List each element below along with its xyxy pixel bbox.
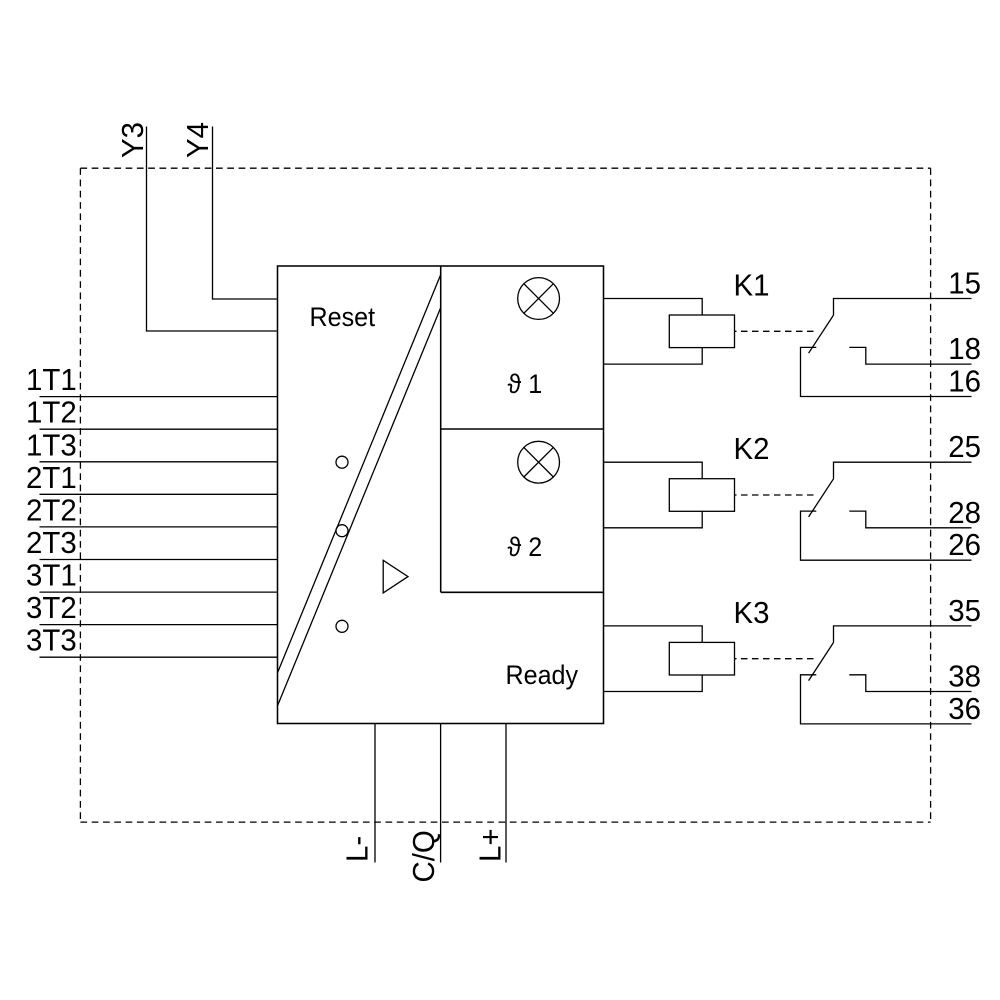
svg-text:C/Q: C/Q xyxy=(407,830,441,882)
mechanical link K2 coil to contact (dashed) xyxy=(735,494,818,496)
svg-text:35: 35 xyxy=(948,594,981,628)
svg-text:26: 26 xyxy=(948,529,981,563)
wire 2T1 (thermistor sensor input) xyxy=(40,493,278,495)
node circle (upper) on characteristic xyxy=(336,456,348,468)
svg-text:K3: K3 xyxy=(734,596,770,630)
svg-text:L+: L+ xyxy=(474,828,508,862)
svg-text:1T3: 1T3 xyxy=(26,429,77,463)
wire Y3 (reset input) xyxy=(147,127,278,332)
indicator lamp ϑ2 (circle with X) xyxy=(518,441,560,483)
wire 1T3 (thermistor sensor input) xyxy=(40,461,278,463)
svg-text:36: 36 xyxy=(948,692,981,726)
contact K3 NC seat and terminal wire 38 xyxy=(849,675,971,692)
svg-text:3T3: 3T3 xyxy=(26,624,77,658)
contact K1: NO terminal wire 15 xyxy=(834,299,972,316)
evaluation unit U1 (main block outline) xyxy=(278,266,604,724)
relay coil K1 upper supply wire xyxy=(604,299,703,316)
relay coil K3 xyxy=(669,642,734,675)
contact K3 common seat and terminal wire 36 xyxy=(801,675,972,724)
wire 3T2 (thermistor sensor input) xyxy=(40,624,278,626)
svg-text:2T2: 2T2 xyxy=(26,494,77,528)
svg-text:25: 25 xyxy=(948,431,981,465)
relay coil K3 lower supply wire xyxy=(604,675,703,692)
U1 channel 2 box bottom xyxy=(441,591,604,593)
node circle (middle) on characteristic xyxy=(336,525,348,537)
contact K3 movable arm xyxy=(809,643,834,681)
node circle (lower) on characteristic xyxy=(336,620,348,632)
wire 1T1 (thermistor sensor input) xyxy=(40,396,278,398)
contact K2 common seat and terminal wire 26 xyxy=(801,511,972,560)
svg-text:16: 16 xyxy=(948,365,981,399)
wire L+ (supply) xyxy=(505,724,507,863)
wire 3T1 (thermistor sensor input) xyxy=(40,591,278,593)
svg-text:3T1: 3T1 xyxy=(26,559,77,593)
relay coil K2 lower supply wire xyxy=(604,511,703,528)
U1 channel 1 / channel 2 divider xyxy=(441,428,604,430)
contact K1 common seat and terminal wire 16 xyxy=(801,347,972,396)
svg-text:ϑ 2: ϑ 2 xyxy=(508,531,543,562)
svg-text:K2: K2 xyxy=(734,433,770,467)
svg-text:28: 28 xyxy=(948,496,981,530)
relay coil K1 lower supply wire xyxy=(604,348,703,365)
wire 2T3 (thermistor sensor input) xyxy=(40,559,278,561)
U1 internal divider (vertical) xyxy=(440,266,442,592)
wire L- (supply) xyxy=(374,724,376,863)
svg-text:ϑ 1: ϑ 1 xyxy=(508,368,543,399)
contact K2 movable arm xyxy=(809,479,834,517)
svg-text:38: 38 xyxy=(948,660,981,694)
wire 2T2 (thermistor sensor input) xyxy=(40,526,278,528)
svg-text:15: 15 xyxy=(948,267,981,301)
svg-text:Y4: Y4 xyxy=(181,122,215,158)
relay coil K3 upper supply wire xyxy=(604,626,703,643)
svg-text:L-: L- xyxy=(341,836,375,862)
function symbol: measuring slope line 2 xyxy=(278,308,441,706)
contact K2: NO terminal wire 25 xyxy=(834,462,972,479)
svg-text:18: 18 xyxy=(948,332,981,366)
svg-text:2T3: 2T3 xyxy=(26,526,77,560)
relay coil K2 xyxy=(669,479,734,512)
device enclosure (dashed boundary) xyxy=(80,168,930,822)
svg-text:Reset: Reset xyxy=(310,301,376,332)
contact K3: NO terminal wire 35 xyxy=(834,626,972,643)
contact K1 NC seat and terminal wire 18 xyxy=(849,347,971,364)
relay coil K2 upper supply wire xyxy=(604,462,703,479)
relay coil K1 xyxy=(669,315,734,348)
indicator lamp ϑ1 (circle with X) xyxy=(518,278,560,320)
contact K1 movable arm xyxy=(809,315,834,353)
svg-text:Ready: Ready xyxy=(506,659,579,690)
wire Y4 (reset input) xyxy=(213,127,278,300)
svg-text:2T1: 2T1 xyxy=(26,461,77,495)
svg-text:K1: K1 xyxy=(734,269,770,303)
svg-text:1T2: 1T2 xyxy=(26,396,77,430)
wire C/Q (IO-Link communication) xyxy=(440,724,442,863)
mechanical link K1 coil to contact (dashed) xyxy=(735,330,818,332)
wire 1T2 (thermistor sensor input) xyxy=(40,428,278,430)
svg-text:Y3: Y3 xyxy=(116,122,150,158)
function symbol: measuring slope line 1 xyxy=(278,275,441,673)
contact K2 NC seat and terminal wire 28 xyxy=(849,511,971,528)
wire 3T3 (thermistor sensor input) xyxy=(40,656,278,658)
svg-text:3T2: 3T2 xyxy=(26,591,77,625)
svg-text:1T1: 1T1 xyxy=(26,363,77,397)
amplifier triangle symbol xyxy=(383,560,408,593)
mechanical link K3 coil to contact (dashed) xyxy=(735,658,818,660)
